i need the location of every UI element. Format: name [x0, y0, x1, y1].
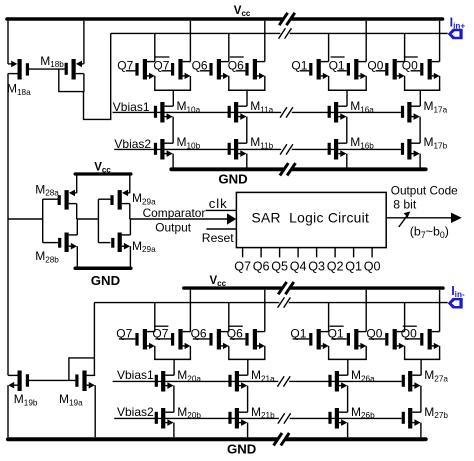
wire Q0 pair source join (bottom)	[404, 358, 440, 360]
svg-text:GND: GND	[227, 442, 256, 457]
transistor M28b (NMOS inverter 1)	[65, 233, 69, 253]
wire Q7 drain to Iin- line	[154, 303, 156, 332]
wire Q6bar drain to Vcc rail	[264, 21, 266, 62]
node Iin- summing line	[94, 302, 279, 304]
Vcc power rail (bottom)	[184, 286, 282, 289]
wire M20b source to bottom ground rail	[173, 423, 175, 438]
transistor M16a (cascode current source, Vbias1)	[334, 102, 338, 123]
transistor M27a (bottom cascode source, Vbias1)	[408, 371, 412, 392]
GND bar (comparator)	[75, 266, 131, 270]
bus width slash	[399, 214, 408, 227]
wire M21b source to bottom ground rail	[247, 423, 249, 438]
transistor M21a (bottom cascode source, Vbias1)	[235, 371, 239, 392]
transistor M19b (NMOS mirror output)	[18, 371, 22, 392]
wire Q7 source down	[154, 76, 156, 90]
break // on bottom Vcc rail	[278, 282, 286, 294]
svg-text:GND: GND	[218, 172, 247, 187]
node Vbias1 line (top)	[113, 111, 282, 113]
wire M21a source to M21b drain	[247, 386, 249, 413]
transistor M10b (cascode current source, Vbias2)	[160, 139, 164, 160]
transistor M20b (bottom cascode source, Vbias2)	[161, 408, 165, 429]
wire Q1 gate lead (bottom)	[293, 338, 310, 340]
ground rail (bottom)	[8, 437, 277, 441]
wire Q1bar drain to Vcc rail	[365, 21, 367, 62]
transistor M11a (cascode current source, Vbias1)	[234, 102, 238, 123]
wire M16b source to ground rail	[346, 154, 348, 168]
svg-text:Q5: Q5	[271, 259, 288, 273]
wire Q1 source down	[328, 76, 330, 90]
wire Q7 gate lead	[126, 70, 136, 72]
transistor M16b (cascode current source, Vbias2)	[334, 139, 338, 160]
wire Q6bar source down	[264, 76, 266, 90]
wire M29b source to GND bar	[129, 246, 131, 266]
wire Q7bar drain to Vcc rail	[189, 21, 191, 62]
transistor M11b (cascode current source, Vbias2)	[234, 139, 238, 160]
wire Q1 drain to Iin+ line	[328, 33, 330, 61]
wire Q7 gate lead (bottom)	[119, 338, 136, 340]
arrowhead output code	[451, 213, 462, 223]
wire Q7 pair source join (bottom)	[154, 358, 191, 360]
svg-text:Q4: Q4	[290, 259, 307, 273]
wire Q7bar drain to bottom Vcc rail	[189, 290, 191, 332]
wire Q1 pair to current source (bottom)	[347, 359, 349, 375]
Vcc bar (comparator)	[75, 172, 131, 175]
wire Q7 pair source join	[154, 89, 191, 91]
wire Vcc rail to M18a source	[7, 21, 9, 64]
wire M10b source to ground rail	[172, 154, 174, 168]
svg-text:Q2: Q2	[327, 259, 344, 273]
wire Q7bar gate lead	[161, 70, 171, 72]
break // on Vbias2 (bottom)	[278, 413, 285, 423]
arrowhead comparator output into SAR	[227, 213, 236, 224]
wire Q7 pair to current source (bottom)	[173, 359, 175, 375]
wire M19a drain to Iin- line	[93, 303, 95, 376]
SAR logic circuit block	[236, 192, 386, 247]
wire M28b drain to inverter1 output	[76, 219, 78, 235]
node Iin+ summing line	[111, 32, 281, 34]
svg-text:Output: Output	[155, 221, 191, 235]
wire Q6bar gate lead	[236, 70, 246, 72]
wire gate line M18a-M18b	[29, 68, 65, 70]
transistor M26a (bottom cascode source, Vbias1)	[335, 371, 339, 392]
wire comparator output to SAR logic	[130, 218, 228, 220]
svg-text:Q0: Q0	[364, 259, 381, 273]
wire M18b diode connection (gate to drain)	[59, 69, 84, 92]
transistor M17a (cascode current source, Vbias1)	[407, 102, 411, 123]
transistor M10a (cascode current source, Vbias1)	[160, 102, 164, 123]
wire Q6bar source down (bottom)	[264, 346, 266, 360]
transistor Q6bar switch	[253, 59, 257, 80]
svg-text:GND: GND	[91, 273, 120, 288]
svg-text:Vbias1: Vbias1	[117, 368, 154, 382]
wire Q0bar source down (bottom)	[439, 346, 441, 360]
wire M29a drain to comparator output	[129, 204, 131, 219]
wire M29a source to Vcc bar	[129, 175, 131, 193]
transistor Q1bar switch (bottom)	[354, 329, 358, 350]
transistor M18b (PMOS mirror diode)	[72, 59, 76, 80]
wire gate line M19b-M19a	[29, 379, 76, 381]
wire Q0 gate lead (bottom)	[369, 338, 386, 340]
wire Q1 source down (bottom)	[328, 346, 330, 360]
SAR output pins Q7-Q0	[242, 248, 244, 258]
wire M27b source to bottom ground rail	[420, 423, 422, 438]
wire Q6 pair to current source	[246, 90, 248, 106]
node Vbias2 line (top)	[114, 148, 281, 150]
wire M20a source to M20b drain	[173, 386, 175, 413]
wire Q7bar source down (bottom)	[189, 346, 191, 360]
port Iin+ (input current terminal)	[448, 29, 463, 40]
transistor Q7bar switch	[178, 59, 182, 80]
wire Q0bar source down	[439, 76, 441, 90]
svg-text:Q6: Q6	[253, 259, 270, 273]
wire Q7 source down (bottom)	[154, 346, 156, 360]
transistor Q7 switch (bottom)	[143, 329, 147, 350]
transistor M21b (bottom cascode source, Vbias2)	[235, 408, 239, 429]
wire Q1 pair to current source	[346, 90, 348, 106]
transistor M27b (bottom cascode source, Vbias2)	[408, 408, 412, 429]
break // on Iin- line	[278, 297, 285, 307]
wire Q0 source down (bottom)	[404, 346, 406, 360]
transistor M17b (cascode current source, Vbias2)	[407, 139, 411, 160]
break // on Vbias1 (bottom)	[277, 376, 284, 386]
wire M18b drain node to Iin+ line	[84, 33, 111, 119]
node Vbias2 line (bottom)	[114, 417, 279, 419]
wire Q6 source down (bottom)	[228, 346, 230, 360]
transistor Q0bar switch	[428, 59, 432, 80]
wire Q0bar gate lead (bottom)	[405, 338, 421, 340]
wire Q1bar drain to bottom Vcc rail	[365, 290, 367, 332]
wire M16a source to M16b drain	[346, 117, 348, 144]
port Iin- (input current terminal)	[448, 298, 463, 309]
wire Q0 drain to Iin- line	[404, 303, 406, 332]
wire Q6bar gate lead (bottom)	[230, 338, 246, 340]
svg-text:SAR Logic Circuit: SAR Logic Circuit	[252, 210, 370, 225]
wire M28a source to Vcc bar	[76, 175, 78, 193]
wire inverter2 input rail	[97, 199, 99, 242]
wire M28a drain to inverter1 output	[76, 204, 78, 219]
Vcc power rail (top)	[7, 17, 283, 21]
wire M28b source to GND bar	[76, 246, 78, 266]
wire M27a source to M27b drain	[420, 386, 422, 413]
transistor M26b (bottom cascode source, Vbias2)	[335, 408, 339, 429]
transistor Q0 switch	[393, 59, 397, 80]
svg-text:clk: clk	[209, 196, 228, 211]
wire Reset into SAR	[206, 228, 236, 230]
wire Q6 source down	[228, 76, 230, 90]
wire output code bus	[386, 217, 451, 219]
wire Q1 pair source join	[328, 89, 367, 91]
wire Q1 pair source join (bottom)	[328, 358, 367, 360]
break // on top ground rail	[280, 163, 288, 175]
transistor Q7 switch	[143, 59, 147, 80]
wire comparator input node to inverter M28 gates	[8, 218, 43, 220]
wire Q7bar gate lead (bottom)	[155, 338, 171, 340]
svg-text:Vbias2: Vbias2	[117, 405, 154, 419]
wire M11a source to M11b drain	[246, 117, 248, 144]
wire Q6bar drain to bottom Vcc rail	[264, 290, 266, 332]
svg-text:Reset: Reset	[202, 231, 234, 245]
wire Q1bar source down (bottom)	[365, 346, 367, 360]
transistor M29a (PMOS inverter 2)	[118, 190, 122, 210]
wire clk into SAR	[206, 209, 237, 211]
wire Q0 gate lead	[376, 70, 386, 72]
svg-text:Q7: Q7	[234, 259, 251, 273]
break // on Iin+ line	[279, 28, 286, 38]
transistor Q6bar switch (bottom)	[253, 329, 257, 350]
wire Q1 drain to Iin- line	[328, 303, 330, 332]
svg-text:Q3: Q3	[308, 259, 325, 273]
break // on top Vcc rail	[279, 13, 287, 25]
wire M17b source to ground rail	[419, 154, 421, 168]
break // on Vbias2 (top)	[280, 144, 287, 154]
wire Q6 pair source join	[228, 89, 265, 91]
break // on Vbias1 (top)	[280, 107, 287, 117]
transistor Q0 switch (bottom)	[393, 329, 397, 350]
ground rail (top section)	[171, 167, 282, 171]
wire Q0bar drain to Vcc rail	[439, 21, 441, 62]
wire Q6 drain to Iin- line	[228, 303, 230, 332]
wire Vcc rail to M18b source	[83, 21, 85, 64]
wire Q1bar gate lead (bottom)	[331, 338, 347, 340]
wire Q6 drain to Iin+ line	[228, 33, 230, 61]
wire inverter1 input rail	[42, 199, 44, 242]
wire Q0 pair source join	[404, 89, 440, 91]
svg-text:Vbias2: Vbias2	[114, 137, 151, 151]
wire Q7 pair to current source	[172, 90, 174, 106]
svg-text:8 bit: 8 bit	[393, 198, 417, 212]
break // on bottom ground rail	[274, 433, 282, 445]
node Vbias1 line (bottom)	[113, 380, 279, 382]
transistor Q1 switch (bottom)	[317, 329, 321, 350]
transistor M20a (bottom cascode source, Vbias1)	[161, 371, 165, 392]
wire Q0bar drain to bottom Vcc rail	[439, 290, 441, 332]
transistor Q0bar switch (bottom)	[428, 329, 432, 350]
wire Q0 pair to current source	[419, 90, 421, 106]
wire M11b source to ground rail	[246, 154, 248, 168]
wire Q7bar source down	[189, 76, 191, 90]
transistor M19a (NMOS mirror diode)	[82, 371, 86, 392]
wire M10a source to M10b drain	[172, 117, 174, 144]
wire M18a drain down (comparator input node)	[7, 74, 9, 376]
transistor M28a (PMOS inverter 1)	[65, 190, 69, 210]
wire Q1bar source down	[365, 76, 367, 90]
transistor Q7bar switch (bottom)	[178, 329, 182, 350]
wire Q6 gate lead (bottom)	[193, 338, 210, 340]
transistor Q1bar switch	[354, 59, 358, 80]
wire Q0bar gate lead	[411, 70, 421, 72]
wire Q6 gate lead	[200, 70, 210, 72]
wire M19a diode connection	[69, 358, 95, 381]
wire M29b drain to comparator output	[129, 219, 131, 235]
wire M19a source to ground rail	[94, 385, 96, 437]
wire Q0 drain to Iin+ line	[404, 33, 406, 61]
wire Q7 drain to Iin+ line	[154, 33, 156, 61]
bus slash arrowhead	[404, 211, 411, 217]
svg-text:Vbias1: Vbias1	[113, 100, 150, 114]
transistor Q6 switch	[217, 59, 221, 80]
svg-text:Comparator: Comparator	[143, 206, 206, 220]
transistor Q6 switch (bottom)	[217, 329, 221, 350]
wire M26b source to bottom ground rail	[347, 423, 349, 438]
transistor Q1 switch	[317, 59, 321, 80]
wire Q0 pair to current source (bottom)	[420, 359, 422, 375]
wire M26a source to M26b drain	[347, 386, 349, 413]
svg-text:Q1: Q1	[345, 259, 362, 273]
wire inverter1 output to inverter2 input	[77, 218, 99, 220]
wire Q0 source down	[404, 76, 406, 90]
wire M19b source to ground rail	[7, 385, 9, 437]
wire Q6 pair source join (bottom)	[228, 358, 265, 360]
wire M17a source to M17b drain	[419, 117, 421, 144]
wire Q6 pair to current source (bottom)	[247, 359, 249, 375]
transistor M29b (NMOS inverter 2)	[118, 233, 122, 253]
wire Q1bar gate lead	[337, 70, 347, 72]
transistor M18a (PMOS mirror output)	[18, 59, 22, 80]
wire Q1 gate lead	[300, 70, 310, 72]
svg-text:Output Code: Output Code	[391, 183, 458, 197]
